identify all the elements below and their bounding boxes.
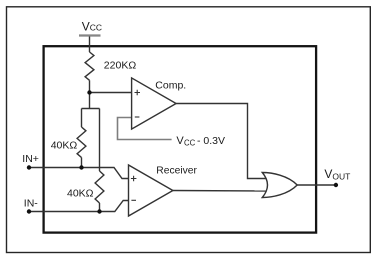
wire OR output to VOUT terminal <box>297 184 336 186</box>
VOUT terminal dot <box>334 183 338 187</box>
svg-text:40KΩ: 40KΩ <box>67 187 94 199</box>
wire node A to comparator + input <box>90 92 134 94</box>
IN- terminal dot <box>27 209 31 213</box>
power symbol VCC bar <box>79 34 101 36</box>
junction IN+ / R2 <box>79 165 83 169</box>
wire VCC bar to resistor R1 top <box>89 37 91 53</box>
junction IN- / R3 <box>97 209 101 213</box>
wire IN- line with jog to receiver - input <box>29 201 133 212</box>
VCC label <box>82 19 102 33</box>
svg-text:CC: CC <box>90 22 102 32</box>
device boundary box <box>44 46 317 232</box>
op-amp U1 comparator triangle <box>132 78 177 129</box>
svg-text:V: V <box>324 167 332 181</box>
U1 + pin mark <box>135 90 141 96</box>
VOUT label <box>324 167 350 181</box>
svg-text:Receiver: Receiver <box>156 166 197 177</box>
U2 + pin mark <box>131 176 137 182</box>
resistor R1 220K zigzag <box>85 52 94 80</box>
OR gate G1 <box>262 173 297 198</box>
svg-text:220KΩ: 220KΩ <box>104 60 137 72</box>
svg-text:Comp.: Comp. <box>155 80 186 92</box>
svg-text:OUT: OUT <box>332 171 350 181</box>
svg-text:CC: CC <box>184 139 196 148</box>
U1 - pin mark <box>135 116 140 118</box>
wire comparator output to OR gate top input <box>176 104 268 179</box>
wire R3 bottom to IN- junction <box>99 203 101 212</box>
svg-text:V: V <box>82 19 90 33</box>
resistor R2 40K zigzag (upper) <box>77 127 86 158</box>
resistor R3 40K zigzag (lower) <box>95 171 104 203</box>
svg-text:- 0.3V: - 0.3V <box>197 135 225 147</box>
node A junction dot <box>87 90 91 94</box>
wire R1 bottom to node A <box>89 80 91 92</box>
VCC - 0.3V net label <box>176 135 225 148</box>
svg-text:IN+: IN+ <box>22 153 39 165</box>
svg-text:IN-: IN- <box>24 197 39 209</box>
wire receiver output to OR gate bottom input <box>173 190 268 193</box>
wire R2 bottom to IN+ junction <box>81 158 83 168</box>
wire comparator - input loop to reference <box>118 118 172 140</box>
wire IN+ line with jog to receiver + input <box>29 168 133 179</box>
wire split to resistor R2 top <box>81 109 83 128</box>
IN+ terminal dot <box>27 165 31 169</box>
wire node A down to divider split <box>89 93 91 109</box>
U2 - pin mark <box>131 199 136 201</box>
wire split to resistor R3 top (crosses IN+ line) <box>99 109 101 172</box>
op-amp U2 receiver triangle <box>129 165 173 216</box>
svg-text:40KΩ: 40KΩ <box>51 139 78 151</box>
wire divider split bar <box>82 108 100 110</box>
